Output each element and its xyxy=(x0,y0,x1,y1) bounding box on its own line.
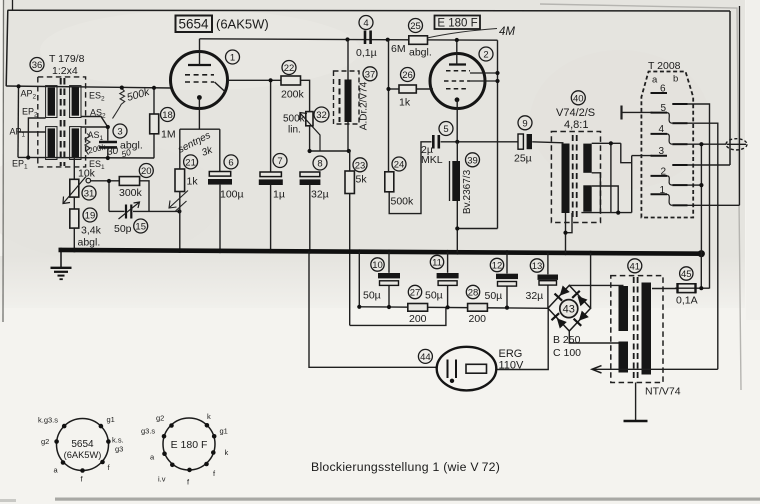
fuse F45 through line xyxy=(675,287,710,289)
node choke37/R23 dot xyxy=(347,149,351,153)
svg-text:24: 24 xyxy=(394,160,405,171)
wire bridge plus to bus xyxy=(590,253,592,308)
wire pin5 b to arrow wire xyxy=(688,123,718,369)
svg-text:7: 7 xyxy=(277,156,282,167)
node C7 tap dot xyxy=(269,78,273,82)
wire pin5 stub with terminal xyxy=(622,111,653,113)
svg-text:k.s.: k.s. xyxy=(112,436,124,445)
svg-text:3,4k: 3,4k xyxy=(81,225,102,237)
resistor R23 bottom lead crossing bus xyxy=(349,194,351,326)
node R26 left dot xyxy=(386,87,390,91)
wire filter row left riser xyxy=(358,252,360,307)
svg-text:21: 21 xyxy=(185,157,196,168)
svg-text:(6AK5W): (6AK5W) xyxy=(216,17,269,32)
wire C5 to choke39 node to C9 xyxy=(441,141,518,143)
label circle 15 xyxy=(134,219,148,233)
transformer T179/8 dashed box xyxy=(38,77,86,167)
svg-text:50µ: 50µ xyxy=(363,290,381,302)
svg-text:44: 44 xyxy=(420,352,431,363)
pin 3 contact b xyxy=(672,164,687,166)
label circle 25 xyxy=(409,19,423,33)
transformer T40 core dashed lines xyxy=(573,135,577,219)
label circle 28 xyxy=(466,285,479,298)
pin 4 contact b xyxy=(672,143,687,145)
wire to pin3 xyxy=(631,156,633,213)
svg-text:g2: g2 xyxy=(156,414,164,423)
svg-text:0,1A: 0,1A xyxy=(676,295,698,307)
node grid-rail R18 dot xyxy=(152,86,156,90)
wire wiper to R20 xyxy=(91,180,120,182)
node cathode/C5/choke dot xyxy=(455,140,459,144)
label circle 7 xyxy=(273,154,287,168)
label E180F box xyxy=(435,16,481,30)
node T40 dot a xyxy=(609,141,613,145)
svg-text:41: 41 xyxy=(630,261,641,272)
tube V2 plate lead xyxy=(456,40,458,65)
resistor R20 300k body xyxy=(119,177,139,186)
svg-text:5: 5 xyxy=(661,103,667,114)
svg-text:g1: g1 xyxy=(107,415,115,424)
capacitor C11 50u top plate xyxy=(437,273,459,278)
choke L39 winding bar xyxy=(452,161,460,201)
switch curve 5 xyxy=(667,113,672,124)
wire EP1 cathode rail xyxy=(18,156,154,159)
resistor R22 200k body xyxy=(281,76,301,85)
wire top-left edge tick xyxy=(12,0,14,10)
svg-text:26: 26 xyxy=(402,70,413,81)
label circle 31 xyxy=(82,186,96,200)
wire T40 sec wiring v1 xyxy=(610,143,612,212)
svg-text:36: 36 xyxy=(32,60,43,71)
node choke39/box bottom dot xyxy=(455,226,459,230)
transformer T179/8 secondary winding bottom section xyxy=(70,127,81,160)
wire C10 bottom lead xyxy=(388,286,390,308)
resistor R18 1M body xyxy=(150,114,159,134)
label 5654 box xyxy=(176,16,269,33)
capacitor C12 50u top plate xyxy=(496,274,518,279)
tube V1 cathode lead xyxy=(198,98,200,130)
node pot32 bottom dot xyxy=(308,149,312,153)
wire ERG right to bridge node xyxy=(496,308,548,369)
svg-text:500k: 500k xyxy=(391,196,415,208)
svg-text:32: 32 xyxy=(316,110,327,121)
choke L39 thin line xyxy=(449,161,451,201)
label circle 1 xyxy=(226,50,240,64)
wire V2 box right vertical xyxy=(497,40,499,228)
connector T2008 contacts and switches xyxy=(651,93,688,205)
tube V1 5654 envelope xyxy=(171,52,228,109)
label circle 45 xyxy=(680,267,693,280)
capacitor C3 plates xyxy=(99,142,117,147)
svg-text:k: k xyxy=(225,448,229,457)
transformer T40 dashed box xyxy=(551,132,600,223)
label circle 12 xyxy=(490,258,503,271)
svg-text:Bv.2367/3: Bv.2367/3 xyxy=(462,169,473,214)
svg-text:lin.: lin. xyxy=(288,125,301,136)
svg-text:4,8:1: 4,8:1 xyxy=(564,119,588,131)
node EP2/EP1 junction dot xyxy=(26,155,30,159)
resistor R21 1k body xyxy=(175,169,185,192)
resistor R19 bottom lead xyxy=(73,228,75,250)
wire C12 bottom lead xyxy=(506,286,508,307)
node V2 plate dot xyxy=(455,38,459,42)
resistor R23 5k body xyxy=(345,171,354,194)
svg-text:28: 28 xyxy=(468,288,479,299)
resistor R25 6M body xyxy=(409,36,428,45)
switch curve 2 xyxy=(667,176,672,185)
wire T40 sec wiring jog xyxy=(621,143,632,162)
capacitor C6 bottom lead xyxy=(219,185,221,251)
transformer T40 primary bar xyxy=(562,144,570,214)
svg-text:50µ: 50µ xyxy=(485,290,503,302)
wire pin3 b to border xyxy=(688,164,731,166)
label circle 27 xyxy=(408,285,421,298)
wire bridge bottom to T41 primary lower xyxy=(569,331,621,343)
label circle 20 xyxy=(139,164,153,178)
wire top border rail xyxy=(8,9,731,12)
wire V1 grid2 to R22 xyxy=(228,79,282,81)
svg-text:20: 20 xyxy=(141,166,152,177)
svg-text:37: 37 xyxy=(365,69,376,80)
svg-text:i.v: i.v xyxy=(158,475,166,484)
wire to C6 xyxy=(219,129,221,171)
resistor R28 200 body xyxy=(468,304,488,312)
node V2 box left dot xyxy=(386,38,390,42)
node T40 primary dot xyxy=(563,231,567,235)
svg-text:6M: 6M xyxy=(391,43,406,55)
transformer T179/8 secondary winding top section xyxy=(70,86,81,118)
node AP2 junction dot xyxy=(17,84,21,88)
svg-text:5654: 5654 xyxy=(71,439,94,450)
wire C13 bottom lead xyxy=(547,285,549,308)
resistor R27 200 body xyxy=(408,304,428,312)
label circle 11 xyxy=(430,255,443,268)
label circle 18 xyxy=(161,108,175,122)
wire C11 top lead xyxy=(447,252,449,273)
svg-text:6: 6 xyxy=(228,157,233,168)
tube socket 5654 pins xyxy=(54,424,110,473)
svg-text:B 250: B 250 xyxy=(553,334,581,346)
fuse F45 end caps xyxy=(678,283,696,293)
capacitor C13 32u bottom plate xyxy=(539,281,557,285)
capacitor C8 32u top plate xyxy=(300,172,320,177)
capacitor C9 25u right plate xyxy=(527,134,532,149)
wire to R21 xyxy=(179,129,181,169)
choke L39 top lead xyxy=(456,142,458,161)
svg-text:30: 30 xyxy=(106,145,119,158)
fuse F45 0,1A body xyxy=(678,284,696,293)
ground symbol xyxy=(51,268,72,279)
pin 2 contact a xyxy=(651,175,668,177)
svg-text:1k: 1k xyxy=(187,176,199,188)
ground symbol lead xyxy=(60,250,62,268)
potentiometer R31 10k body xyxy=(70,179,79,197)
label circle 32 xyxy=(314,107,329,122)
svg-text:T 179/8: T 179/8 xyxy=(49,53,85,65)
wire AS1 stub xyxy=(81,126,108,128)
svg-text:32µ: 32µ xyxy=(526,290,544,302)
svg-text:6: 6 xyxy=(660,84,666,95)
node grid-rail 500k dot xyxy=(120,86,124,90)
lamp ERG 44 ellipse xyxy=(437,347,497,391)
svg-text:4M: 4M xyxy=(499,26,515,38)
svg-text:1: 1 xyxy=(230,53,235,64)
tube V2 cathode lead xyxy=(456,100,458,142)
wire T41 ground lead xyxy=(635,383,637,421)
svg-text:39: 39 xyxy=(467,155,478,166)
wire T40 sec lead 2 xyxy=(592,173,601,213)
tube V2 cathode dot xyxy=(455,97,460,102)
bridge diode bottom-right xyxy=(574,310,589,326)
tube socket E180F pins xyxy=(162,423,217,472)
svg-text:31: 31 xyxy=(84,189,95,200)
label circle 39 xyxy=(466,153,480,167)
label circle 21 xyxy=(184,155,198,169)
capacitor C4 0.1u plates xyxy=(365,31,371,45)
resistor R21 bottom lead xyxy=(179,192,181,251)
handwritten 200k zigzag resistor xyxy=(85,134,90,155)
wire left scan edge xyxy=(2,0,5,322)
svg-text:25µ: 25µ xyxy=(514,153,532,165)
node T40 dot b xyxy=(616,211,620,215)
pin 5 contact a xyxy=(651,112,668,114)
pin 6 contact a xyxy=(651,92,668,94)
wire C7 tap xyxy=(270,80,272,172)
transformer T179/8 primary winding bottom section xyxy=(46,127,57,160)
svg-text:1: 1 xyxy=(660,185,666,196)
choke L37 dashed box xyxy=(334,71,360,124)
wire right border down to pin3 level xyxy=(729,11,731,165)
wire bus end down to fuse line xyxy=(700,254,702,289)
label circle 13 xyxy=(530,259,543,272)
svg-text:1M: 1M xyxy=(161,129,176,141)
lamp ERG capacitor plates xyxy=(448,360,457,379)
svg-text:12: 12 xyxy=(492,261,503,272)
svg-text:1k: 1k xyxy=(399,97,411,109)
wire pot32/choke37/R23 node xyxy=(310,150,350,152)
wire bridge top to T41 primary xyxy=(569,284,623,286)
label circle 26 xyxy=(401,68,415,82)
wire AP rail vertical xyxy=(17,86,20,157)
tube V2 E180F envelope xyxy=(430,54,485,109)
svg-text:43: 43 xyxy=(563,304,575,316)
node bus dots left xyxy=(59,248,705,258)
svg-text:23: 23 xyxy=(355,160,366,171)
svg-text:ERG: ERG xyxy=(499,348,523,360)
capacitor C15 trimmer arrow xyxy=(119,203,140,220)
capacitor C10 50u bottom plate xyxy=(380,281,399,286)
transformer T41 primary top bar xyxy=(619,286,629,331)
capacitor C8 32u bottom plate xyxy=(300,179,321,185)
wire outer right loop down xyxy=(739,6,741,205)
svg-text:100µ: 100µ xyxy=(220,189,244,201)
svg-text:V74/2/S: V74/2/S xyxy=(556,107,595,119)
svg-text:MKL: MKL xyxy=(421,154,443,166)
svg-text:NT/V74: NT/V74 xyxy=(645,386,681,398)
potentiometer R31 10k top lead xyxy=(73,158,75,180)
potentiometer R32 wiper arrow xyxy=(300,113,321,152)
wire capacitor C3 branch top xyxy=(107,127,109,141)
transformer T41 core dashed lines xyxy=(634,277,638,381)
transformer T36 label circle xyxy=(30,58,44,72)
lamp ERG resistor box xyxy=(466,364,487,373)
label circle 3 xyxy=(113,124,127,138)
arrow head heater wire xyxy=(592,366,602,373)
potentiometer R31 arrow xyxy=(63,177,86,204)
capacitor C12 50u bottom plate xyxy=(498,282,517,287)
svg-text:110V: 110V xyxy=(499,360,525,372)
transformer T41 primary bottom bar xyxy=(619,342,629,373)
pin 1 contact a xyxy=(651,193,668,195)
lamp ERG dot xyxy=(450,379,454,383)
svg-text:abgl.: abgl. xyxy=(78,237,101,249)
wire filter row horizontal xyxy=(359,307,548,309)
svg-text:22: 22 xyxy=(284,63,295,74)
wire R20 right down xyxy=(140,181,149,212)
bridge rectifier B43 diamond xyxy=(548,285,591,331)
label circle 41 xyxy=(628,259,642,273)
wire C13 top lead xyxy=(547,253,549,274)
label circle 37 xyxy=(363,67,377,81)
connector T2008 dashed outline xyxy=(641,72,693,218)
svg-text:15: 15 xyxy=(135,222,146,233)
pin 4 contact a xyxy=(651,133,668,135)
wire R23 bypass horizontal xyxy=(350,307,446,325)
node grid stub dots xyxy=(495,71,499,75)
node ES1 junction dot xyxy=(106,156,110,160)
svg-text:k: k xyxy=(207,412,211,421)
label circle 24 xyxy=(392,157,406,171)
capacitor C6 100u top plate xyxy=(209,172,230,177)
choke L37 winding bar xyxy=(345,80,352,123)
tube V2 grid rows xyxy=(444,71,470,89)
label circle 9 xyxy=(518,116,532,130)
label circle 5 xyxy=(439,122,453,136)
svg-text:4: 4 xyxy=(363,18,368,29)
wire capacitor C3 branch bottom xyxy=(107,149,109,158)
label circle 10 xyxy=(371,258,384,271)
ground bar under T41 xyxy=(624,420,648,422)
tube socket 5654 circle xyxy=(57,419,109,471)
svg-text:a: a xyxy=(652,75,658,86)
bridge diode bottom-left xyxy=(551,313,567,329)
capacitor C6 100u bottom plate xyxy=(208,179,232,185)
socket ellipse dashed xyxy=(726,139,747,150)
svg-text:4: 4 xyxy=(659,124,665,135)
svg-text:9: 9 xyxy=(522,118,527,129)
label circle 22 xyxy=(282,61,296,75)
wire T40 sec top lead xyxy=(592,142,621,144)
svg-text:1µ: 1µ xyxy=(273,189,285,201)
choke L37 bottom lead xyxy=(347,122,349,151)
capacitor C10 50u top plate xyxy=(378,273,400,278)
transformer T40 secondary top bar xyxy=(583,144,591,173)
capacitor C7 bottom lead xyxy=(270,185,272,251)
svg-text:25: 25 xyxy=(410,21,421,32)
resistor R24 500k body xyxy=(385,172,394,192)
svg-text:5: 5 xyxy=(443,124,448,135)
capacitor C8 bottom lead xyxy=(309,185,311,251)
svg-text:40: 40 xyxy=(573,93,584,104)
wire V2 box left vertical xyxy=(388,40,390,172)
wire R22 to pot 32 xyxy=(301,80,310,111)
svg-text:2: 2 xyxy=(483,50,488,61)
potentiometer R32 lower lead xyxy=(309,126,311,151)
svg-text:E 180 F: E 180 F xyxy=(171,439,208,451)
wire T40 bottom bus wire xyxy=(581,212,631,214)
transformer T179/8 core xyxy=(61,78,65,166)
svg-text:200k: 200k xyxy=(281,89,305,101)
svg-text:g1: g1 xyxy=(220,427,228,436)
svg-text:abgl.: abgl. xyxy=(409,47,432,59)
wire pin6 b to fuse node xyxy=(688,104,710,289)
svg-text:50µ: 50µ xyxy=(425,290,443,302)
potentiometer R32 500k body xyxy=(306,112,313,126)
tube V1 plate lead xyxy=(199,39,201,65)
resistor R21 handwritten arrow xyxy=(169,191,188,212)
ground bus bar xyxy=(59,250,704,254)
label circle 6 xyxy=(224,155,238,169)
pin 1 contact b xyxy=(672,204,687,206)
wire cathode split xyxy=(180,128,220,130)
transformer T41 secondary bar xyxy=(642,283,652,375)
svg-text:E 180 F: E 180 F xyxy=(437,18,477,30)
wire choke39 bottom lead xyxy=(456,201,458,252)
wire R26 left lead xyxy=(389,88,400,90)
pin 5 contact b xyxy=(672,122,687,124)
wire C15 row xyxy=(109,210,125,212)
capacitor C15 50p plates xyxy=(126,205,131,219)
svg-text:50p: 50p xyxy=(114,223,132,235)
wire left border down to grid wire xyxy=(6,10,8,86)
svg-text:5k: 5k xyxy=(356,174,368,186)
resistor R23 5k top lead xyxy=(349,151,351,171)
capacitor C7 1u top plate xyxy=(260,172,281,177)
label circle 40 xyxy=(571,91,585,105)
capacitor C11 50u bottom plate xyxy=(438,281,457,286)
transformer T179/8 primary winding top section xyxy=(46,86,57,118)
svg-text:2: 2 xyxy=(661,167,667,178)
label circle 4 xyxy=(359,16,373,30)
node wiper/C15 dot xyxy=(107,179,111,183)
wire C10 top lead xyxy=(388,252,390,273)
svg-text:11: 11 xyxy=(432,258,442,269)
capacitor C9 25u left plate xyxy=(518,134,523,149)
svg-text:5654: 5654 xyxy=(178,17,209,32)
svg-text:10k: 10k xyxy=(78,168,96,180)
handwritten 500k zigzag resistor xyxy=(113,89,125,119)
capacitor C5 2u MKL plates xyxy=(433,135,439,149)
tube V2 grid stub wires xyxy=(470,73,498,81)
wire V2 box bottom xyxy=(457,228,497,230)
label circle 19 xyxy=(83,208,97,222)
wire AS2 bend xyxy=(81,117,108,128)
svg-text:g3: g3 xyxy=(115,445,123,454)
svg-text:(6AK5W): (6AK5W) xyxy=(64,450,102,460)
svg-text:b: b xyxy=(673,74,678,85)
resistor R26 1k body xyxy=(399,85,416,93)
choke L37 core dashed line xyxy=(339,79,341,122)
transformer T41 dashed box xyxy=(611,276,663,383)
tube V2 plate xyxy=(449,63,466,65)
wire ERG feed left xyxy=(309,251,437,367)
tube V1 cathode dot xyxy=(197,95,202,100)
svg-text:Blockierungsstellung 1 (wie V: Blockierungsstellung 1 (wie V 72) xyxy=(311,460,500,474)
socket ellipse center line xyxy=(727,143,746,145)
svg-text:300k: 300k xyxy=(119,187,143,199)
wire C12 top lead xyxy=(506,253,508,274)
svg-text:3: 3 xyxy=(117,127,122,138)
